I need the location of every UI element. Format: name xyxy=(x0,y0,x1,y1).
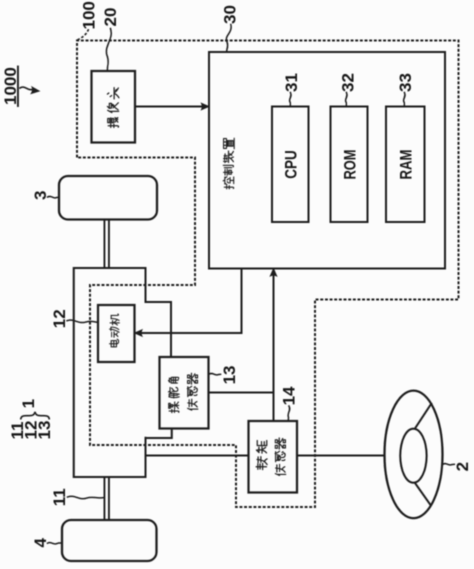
wire torque sensor to control (arrow) xyxy=(270,268,277,421)
svg-text:2: 2 xyxy=(453,462,472,471)
CPU box 31 xyxy=(272,107,309,223)
svg-text:4: 4 xyxy=(31,538,50,548)
label 2 (steering wheel) with leader xyxy=(443,462,472,471)
label 32 with leader xyxy=(338,73,357,106)
wheel 3 xyxy=(59,176,157,220)
motor box 12 xyxy=(98,305,135,362)
label 14 (torque) with leader xyxy=(280,386,299,421)
steering shaft lower xyxy=(297,455,385,457)
svg-text:32: 32 xyxy=(338,73,357,92)
label 4 with leader xyxy=(31,538,62,548)
label 12 (motor) with leader xyxy=(50,309,98,328)
svg-text:31: 31 xyxy=(282,73,301,92)
label 100 with dashed leader xyxy=(78,1,99,40)
steering wheel 2 xyxy=(385,391,443,519)
svg-text:100: 100 xyxy=(79,1,98,29)
label 20 with leader xyxy=(101,8,120,71)
svg-text:RAM: RAM xyxy=(397,150,416,180)
svg-text:CPU: CPU xyxy=(282,150,301,179)
svg-text:14: 14 xyxy=(280,386,299,405)
label 1000 with underline and arrow xyxy=(1,67,40,107)
svg-text:13: 13 xyxy=(35,421,54,440)
steering angle sensor box 13 xyxy=(160,357,209,429)
housing step to sensor 13 (right) xyxy=(146,302,172,357)
ROM box 32 xyxy=(331,107,368,223)
svg-text:20: 20 xyxy=(101,8,120,27)
svg-text:33: 33 xyxy=(396,73,415,92)
svg-text:12: 12 xyxy=(50,309,69,328)
svg-text:13: 13 xyxy=(220,365,239,384)
svg-text:1: 1 xyxy=(19,399,38,408)
control device box 30 xyxy=(209,52,445,269)
steering gear housing xyxy=(74,268,146,477)
group label 11 12 13 brace 1 xyxy=(8,399,54,440)
label 31 with leader xyxy=(282,73,301,106)
wire control to motor (arrow) xyxy=(134,269,241,337)
label 33 with leader xyxy=(396,73,415,106)
torque sensor box 14 xyxy=(249,421,298,493)
steering shaft upper xyxy=(146,455,249,457)
camera box 20 xyxy=(92,71,136,143)
label 13 (sensor) with leader xyxy=(209,365,239,384)
svg-text:ROM: ROM xyxy=(340,150,359,180)
svg-text:30: 30 xyxy=(220,5,239,24)
svg-text:11: 11 xyxy=(50,488,69,506)
wheel 4 xyxy=(62,520,157,561)
svg-text:3: 3 xyxy=(31,191,50,200)
axle to wheel 4 xyxy=(104,477,109,520)
dashed boundary box 100 xyxy=(77,41,459,508)
wire camera to control (arrow) xyxy=(135,103,209,110)
housing step to sensor 13 (left) xyxy=(146,429,172,439)
RAM box 33 xyxy=(386,107,425,223)
label 11 (axle) with leader xyxy=(50,488,104,506)
axle to wheel 3 xyxy=(104,220,109,269)
wire sensor 13 to junction xyxy=(209,392,274,394)
label 3 with leader xyxy=(31,191,59,200)
label 30 with leader xyxy=(220,5,239,52)
